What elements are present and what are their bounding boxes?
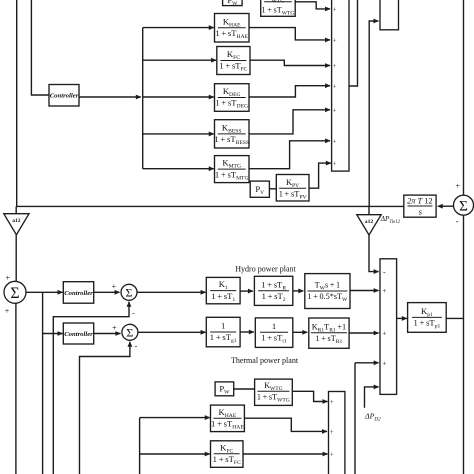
summing rectangle area-2 DG (cropped bottom) (329, 392, 345, 474)
svg-text:+: + (333, 37, 337, 45)
svg-text:Hydro power plant: Hydro power plant (235, 265, 296, 274)
wire DG bus to K_HAE area-2 (140, 417, 210, 419)
svg-text:Thermal power plant: Thermal power plant (231, 356, 299, 365)
wire area-1 controller input drop (31, 0, 49, 95)
svg-text:a12: a12 (365, 219, 374, 225)
gain a12 right (357, 215, 381, 235)
wire ACE sum output to controller 1 (26, 291, 63, 293)
summing circle thermal (122, 324, 138, 340)
wire droop feedback 2 (80, 342, 130, 474)
wire area-2 DG bus vertical (139, 418, 141, 474)
block P_V (250, 181, 269, 197)
svg-text:Controller: Controller (64, 290, 93, 297)
wire branch to K_HAE (143, 27, 214, 29)
svg-text:-: - (456, 216, 459, 226)
svg-text:-: - (132, 309, 135, 318)
svg-text:+: + (112, 282, 117, 291)
block K_HAE/(1+sT_HAE) area-2 (211, 405, 245, 432)
block K_PV/(1+sT_PV) (276, 175, 309, 202)
block K_DEG/(1+sT_DEG) (215, 84, 250, 112)
wire area-2 sum output to power system block (397, 317, 407, 319)
svg-text:+: + (333, 62, 337, 70)
svg-text:+: + (330, 398, 334, 406)
svg-text:+: + (112, 323, 117, 332)
wire Delta-f2 vertical (463, 215, 465, 474)
summing rectangle area-1 DG (cropped top) (332, 0, 349, 171)
wire controller2 to sum circle 2 (94, 333, 121, 335)
wire area-1 DG sum output riser (349, 0, 358, 86)
wire a12 left output to area-2 sum circle (15, 235, 17, 282)
summing circle hydro (121, 284, 137, 300)
svg-text:a12: a12 (12, 218, 21, 224)
svg-text:+: + (330, 451, 334, 459)
block 2*pi*T12/s (404, 195, 436, 217)
wire reheat to area-2 main sum (349, 332, 379, 334)
svg-text:+: + (5, 306, 10, 315)
block P_W area-1 (cropped top) (223, 0, 243, 6)
wire Bias input from bottom into ACE sum (15, 303, 17, 474)
wire tie-line signal riser to area-1 sum (369, 21, 378, 206)
wire Delta-P-D2 load disturbance input (365, 387, 379, 408)
block K_WTG/(1+sT_WTG) area-1 (cropped top) (261, 0, 296, 16)
wire branch to K_DEG (143, 96, 214, 98)
wire DG total into area-2 main sum (355, 362, 379, 364)
wire tie sum to 2piT12/s block (438, 205, 454, 207)
wire branch to K_FC (143, 59, 216, 61)
svg-text:Σ: Σ (459, 199, 468, 215)
wire ACE branch to controller 2 (43, 333, 63, 335)
summing rectangle area-2 main (380, 259, 397, 395)
svg-text:+: + (333, 82, 337, 90)
svg-text:s: s (419, 208, 422, 217)
wire branch to K_MTG (143, 168, 214, 170)
svg-text:Controller: Controller (64, 331, 93, 338)
block K_1/(1+sT_1) (206, 277, 240, 303)
wire K_MTG output to summing rect (249, 141, 330, 169)
wire controller to distribution bus (79, 96, 141, 98)
wire tie-line horizontal (16, 205, 404, 207)
svg-text:+: + (333, 6, 337, 14)
wire turbine to reheat block (293, 331, 308, 333)
wire K_HAE output to DG sum (244, 418, 327, 431)
wire K_FC output to summing rect (250, 60, 330, 65)
wire K_WTG output to area-1 summing rect (295, 2, 330, 9)
wire P_V to K_PV (269, 188, 276, 190)
svg-text:+: + (382, 359, 386, 367)
controller area-1 DG (49, 85, 79, 107)
svg-text:+: + (382, 287, 386, 295)
svg-text:1: 1 (221, 321, 225, 331)
block K_FC/(1+sT_FC) area-2 (211, 441, 244, 468)
svg-text:+: + (333, 160, 337, 168)
wire K_HAE output to summing rect (249, 28, 330, 40)
wire K_DEG output to summing rect (249, 86, 330, 97)
wire K_BESS output to summing rect (249, 110, 330, 134)
svg-text:+: + (382, 330, 386, 338)
wire hydro turbine to area-2 main sum (350, 290, 379, 292)
block P_W area-2 (215, 382, 234, 396)
wire tie riser through a12 right to area-2 rect (369, 235, 379, 272)
controller area-2 thermal (63, 323, 93, 344)
svg-text:+: + (455, 180, 460, 190)
summing rectangle area-1 main (cropped top) (380, 0, 399, 30)
wire K_WTG output to area-2 DG sum (292, 391, 327, 401)
svg-text:Σ: Σ (126, 286, 133, 300)
wire K_FC output to DG sum (243, 453, 328, 455)
wire P_W to K_WTG (234, 388, 255, 390)
wire Delta-f1 line to tie summing point (right) (463, 0, 465, 195)
svg-text:2π T 12: 2π T 12 (407, 197, 432, 206)
wire governor to hydro turbine block (293, 290, 304, 292)
wire DG distribution bus vertical (142, 28, 144, 169)
svg-text:-: - (383, 268, 386, 277)
wire area-2 DG total riser (354, 363, 356, 474)
wire power system output to Delta-f2 line (446, 317, 463, 319)
block 1/(1+sT_g1) (206, 317, 240, 347)
summing circle area-2 ACE (4, 281, 26, 303)
svg-text:-: - (135, 341, 138, 350)
svg-text:+: + (5, 273, 10, 282)
svg-text:Σ: Σ (10, 285, 19, 302)
wire governor to turbine (240, 331, 254, 333)
svg-text:+: + (330, 428, 334, 436)
controller area-2 hydro (63, 282, 93, 304)
wire ACE branch down (42, 292, 44, 474)
svg-text:+: + (333, 106, 337, 114)
wire branch to K_BESS (143, 133, 214, 135)
block (K_R1 T_R1+1)/(1+sT_R1) (309, 318, 349, 348)
svg-text:Σ: Σ (126, 326, 133, 340)
block K_p1/(1+sT_p1) (408, 303, 447, 333)
block (1+sT_R)/(1+sT_2) (254, 276, 292, 305)
block K_FC/(1+sT_FC) (217, 47, 250, 75)
gain a12 left (4, 214, 29, 235)
block K_BESS/(1+sT_BESS) (215, 120, 250, 148)
block K_HAE/(1+sT_HAE) (215, 14, 250, 43)
block 1/(1+sT_t1) (255, 318, 292, 348)
wire sum1 to K1 block (137, 291, 206, 293)
wire droop feedback 1 (53, 302, 129, 474)
wire controller1 to sum circle 1 (94, 291, 120, 293)
wire K1 to governor block (240, 290, 253, 292)
wire tie junction into a12 left (15, 206, 17, 213)
summing circle tie-line (454, 195, 474, 215)
svg-text:WTG: WTG (272, 0, 285, 4)
block K_MTG/(1+sT_MTG) (215, 156, 250, 183)
wire Delta-f1 feedback vertical (left) (16, 0, 18, 206)
block (T_W s+1)/(1+0.5*sT_W) (305, 274, 350, 309)
svg-text:Controller: Controller (50, 92, 79, 99)
wire sum2 to thermal governor (138, 331, 206, 333)
svg-text:1: 1 (272, 321, 276, 331)
wire DG bus to K_FC area-2 (140, 453, 210, 455)
block K_WTG/(1+sT_WTG) area-2 (255, 379, 293, 405)
wire K_PV output to summing rect (309, 163, 331, 188)
svg-text:+: + (333, 137, 337, 145)
